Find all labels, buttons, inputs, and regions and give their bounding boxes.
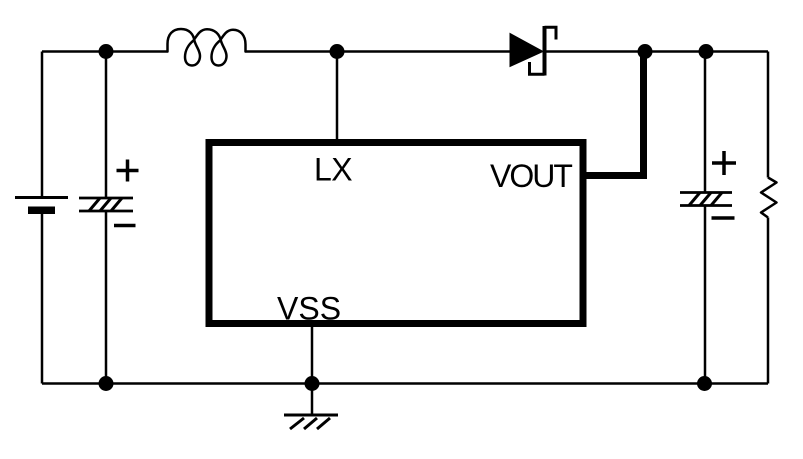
wire VSS pin branch	[311, 326, 314, 384]
wire top bus right segment	[546, 50, 768, 53]
wire resistor branch upper	[767, 52, 770, 178]
C2 minus sign	[712, 216, 735, 220]
wire top bus left segment	[42, 50, 168, 53]
node dot C1 bottom	[99, 376, 114, 391]
VOUT thick trace	[586, 52, 647, 176]
wire C1 branch upper	[105, 52, 108, 199]
wire top bus middle segment	[246, 50, 511, 53]
ground	[284, 415, 338, 429]
wire left rail upper	[41, 52, 44, 198]
resistor R1	[761, 178, 777, 218]
node dot C2 bottom	[697, 376, 712, 391]
wire resistor branch lower	[767, 218, 770, 384]
wire LX pin branch	[336, 52, 339, 141]
C1 plus sign	[117, 160, 139, 182]
node dot VOUT top	[638, 44, 653, 59]
wire C2 branch upper	[704, 52, 707, 193]
C2 plus sign	[712, 151, 736, 175]
C1 minus sign	[114, 224, 136, 228]
diode D1 schottky	[510, 26, 556, 76]
capacitor C2	[680, 193, 732, 206]
capacitor C1	[79, 198, 133, 211]
wire left rail lower	[41, 214, 44, 384]
svg-text:LX: LX	[314, 152, 352, 188]
wire C2 branch lower	[704, 206, 707, 384]
svg-text:VOUT: VOUT	[490, 158, 572, 194]
node dot VSS/ground	[305, 376, 320, 391]
wire bottom bus	[42, 382, 768, 385]
wire ground stem	[311, 384, 314, 415]
node dot VIN/C1 top	[99, 44, 114, 59]
wire C1 branch lower	[105, 211, 108, 384]
node dot C2 top	[699, 44, 714, 59]
inductor L1	[168, 29, 246, 66]
IC U1	[209, 143, 583, 324]
battery BT1	[15, 198, 68, 215]
node dot LX top	[330, 44, 345, 59]
svg-text:VSS: VSS	[277, 291, 341, 327]
